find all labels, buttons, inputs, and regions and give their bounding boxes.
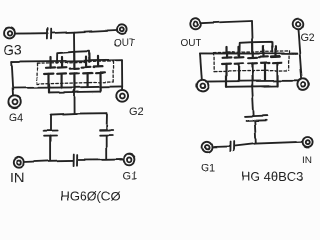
roof bracket (drain tie)	[57, 51, 89, 63]
outer right vertical from G2 down	[298, 29, 302, 78]
wire right branch down	[106, 113, 108, 129]
wire center down to series cap	[252, 86, 253, 115]
terminal G3	[4, 28, 15, 39]
wire split to bypass caps	[51, 113, 107, 114]
transistor comb: upper gate fingers	[46, 52, 102, 69]
wire C5 down to rail junction	[255, 121, 256, 144]
dashed package box (right)	[214, 51, 289, 71]
wire C3 to rail	[105, 135, 107, 159]
terminal lower-left	[197, 80, 209, 92]
bottom rail right segment	[78, 158, 124, 161]
capacitor C4 (series, bottom rail)	[74, 155, 78, 166]
transistor comb: upper gate fingers (right)	[223, 42, 280, 58]
capacitor C6 (rail, right circuit)	[230, 142, 234, 152]
svg-text:HG6Ø(CØ: HG6Ø(CØ	[60, 189, 121, 204]
outer rect top wire	[200, 52, 297, 55]
svg-text:HG 4θBC3: HG 4θBC3	[241, 169, 304, 184]
svg-text:G3: G3	[4, 42, 23, 58]
capacitor C5 (series, right circuit)	[245, 116, 267, 121]
capacitor C2 (left bypass)	[44, 131, 58, 136]
wire junction stem down to block	[73, 32, 75, 51]
capacitor C1 (input coupling, top left)	[47, 29, 51, 39]
wire C1 to OUT	[52, 30, 117, 33]
svg-text:G2: G2	[129, 106, 144, 118]
wire G3 to C1	[16, 32, 47, 34]
bottom tie bracket (right)	[226, 85, 278, 88]
terminal G4	[8, 96, 20, 108]
svg-text:OUT: OUT	[114, 38, 135, 49]
outer left vertical to lower-left terminal	[200, 53, 202, 79]
terminal OUT (right circuit)	[190, 19, 201, 30]
wire stem down to roof	[251, 21, 254, 42]
outer right vertical wire to G2	[121, 60, 123, 90]
terminal OUT	[117, 25, 127, 35]
svg-text:G1: G1	[201, 162, 216, 174]
outer bottom wire (right)	[206, 80, 298, 83]
capacitor C3 (right bypass)	[100, 130, 114, 135]
rail: G1 to cap	[212, 145, 230, 148]
svg-text:G1: G1	[123, 170, 138, 182]
outer left vertical wire to G4	[11, 62, 13, 96]
transistor comb: lower source fingers	[45, 73, 105, 93]
wire C2 to rail	[50, 136, 52, 160]
terminal G1 (left circuit)	[124, 154, 135, 165]
terminal IN (right circuit)	[303, 137, 313, 147]
svg-text:G2: G2	[300, 32, 315, 44]
svg-text:G4: G4	[9, 112, 24, 124]
terminal lower-right	[297, 79, 309, 91]
wire OUT to stem	[201, 21, 252, 23]
svg-text:IN: IN	[302, 155, 312, 166]
terminal G2 (right circuit)	[293, 19, 304, 30]
svg-text:IN: IN	[11, 169, 25, 185]
terminal G2 (left circuit)	[116, 90, 128, 102]
outer bottom wire	[13, 86, 122, 88]
terminal IN	[14, 157, 24, 167]
terminal G1 (right circuit)	[202, 142, 212, 152]
outer rect top wire	[11, 60, 122, 61]
bottom tie bracket	[49, 91, 100, 94]
wire center down from bracket	[74, 92, 76, 114]
dashed package box	[37, 61, 113, 84]
rail: cap to IN	[235, 142, 303, 146]
bottom rail left segment	[24, 160, 72, 162]
roof bracket (right block)	[240, 42, 272, 53]
svg-text:OUT: OUT	[180, 38, 201, 49]
wire left branch down	[50, 115, 52, 131]
transistor comb: lower source fingers (right)	[222, 63, 282, 87]
